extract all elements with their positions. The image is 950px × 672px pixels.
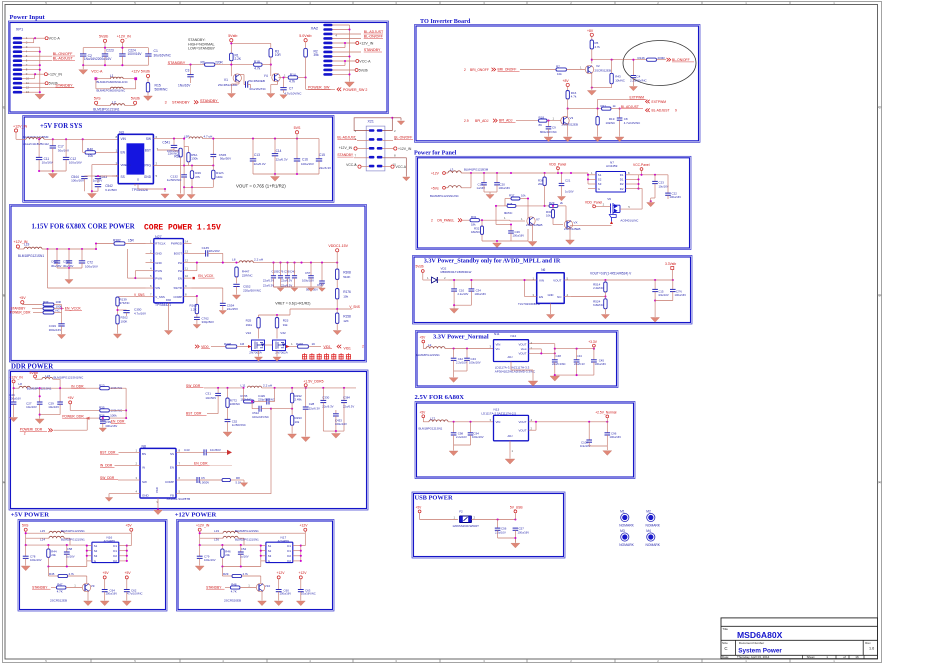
svg-text:1Nu/10V: 1Nu/10V xyxy=(658,293,669,297)
svg-text:BL-ADJUST: BL-ADJUST xyxy=(364,30,384,34)
svg-text:SW_DDR: SW_DDR xyxy=(186,384,201,388)
transistor V4 2SCR520EB xyxy=(248,73,288,93)
svg-text:10u/16V: 10u/16V xyxy=(659,184,669,188)
power pin 5VS xyxy=(22,524,29,546)
power pin 5Vstb R1 xyxy=(228,34,237,53)
ground C27 xyxy=(35,419,44,424)
inductor L2 BLM18PG121SN1 xyxy=(93,100,135,111)
ground C60 xyxy=(274,601,283,606)
svg-text:R23: R23 xyxy=(99,383,105,387)
svg-text:100u/16V: 100u/16V xyxy=(71,179,84,183)
svg-text:BLM18PG121SN1: BLM18PG121SN1 xyxy=(235,529,259,533)
svg-text:4.7u/10V/NC: 4.7u/10V/NC xyxy=(624,121,641,125)
svg-text:R33: R33 xyxy=(43,300,49,304)
net STANDBY drv xyxy=(32,585,56,589)
IC N3 TPS54528 xyxy=(116,131,159,192)
power pin +12V_IN ddr xyxy=(9,376,23,389)
svg-text:2N7002A: 2N7002A xyxy=(249,350,262,354)
svg-text:GND: GND xyxy=(548,293,554,297)
svg-text:100u/16V: 100u/16V xyxy=(610,435,622,439)
svg-text:5VS: 5VS xyxy=(94,96,101,100)
svg-text:C43: C43 xyxy=(184,448,190,452)
svg-text:22R/NC: 22R/NC xyxy=(242,274,254,278)
svg-text:C330: C330 xyxy=(322,396,329,400)
IC N27 TPS54421 xyxy=(146,235,192,307)
svg-text:2.2u/10V: 2.2u/10V xyxy=(456,435,467,439)
svg-text:NOMARK: NOMARK xyxy=(619,524,634,528)
svg-text:C223: C223 xyxy=(106,49,114,53)
resistor R40 10k xyxy=(83,139,119,158)
ground C554 xyxy=(219,311,226,315)
svg-text:10k/NC: 10k/NC xyxy=(615,78,625,82)
connector XA1 xyxy=(355,120,397,171)
resistor R160 1.2K comp xyxy=(190,295,199,317)
svg-text:L8: L8 xyxy=(18,382,22,386)
ground C52 xyxy=(223,432,232,437)
power pin VCC-A xa1 right xyxy=(382,165,406,169)
svg-text:SW_DDR: SW_DDR xyxy=(100,476,115,480)
svg-text:SS: SS xyxy=(121,175,125,179)
svg-text:18k/NC: 18k/NC xyxy=(471,230,480,234)
ground C28 xyxy=(301,437,310,442)
svg-text:2: 2 xyxy=(431,219,433,223)
svg-text:R308: R308 xyxy=(343,271,351,275)
svg-text:C22: C22 xyxy=(672,192,678,196)
svg-text:191k: 191k xyxy=(246,323,253,327)
capacitor C26 panel 100u/16V xyxy=(496,223,524,241)
svg-text:Title: Title xyxy=(722,627,728,631)
svg-text:14: 14 xyxy=(185,240,189,244)
svg-text:+1.5V_DDR5: +1.5V_DDR5 xyxy=(303,380,323,384)
svg-text:RT/CLK: RT/CLK xyxy=(155,242,165,246)
ground R15 xyxy=(144,96,153,101)
svg-text:100u/16V: 100u/16V xyxy=(475,292,487,296)
svg-text:C10: C10 xyxy=(459,288,465,292)
capacitor C48 22u/6.3V/NC xyxy=(552,349,566,375)
ground C38 xyxy=(99,428,106,432)
capacitor C111 100u/16V xyxy=(655,280,686,301)
svg-text:BLM41PG121SN1: BLM41PG121SN1 xyxy=(61,529,85,533)
fiducial M3 xyxy=(619,529,634,547)
inductor L19 xyxy=(199,529,306,534)
ground C64 xyxy=(100,601,109,606)
wire XA1 pin1 loop xyxy=(354,117,401,131)
ground C63 xyxy=(296,601,305,606)
capacitor C60 xyxy=(276,588,291,600)
svg-text:F2: F2 xyxy=(459,509,463,513)
svg-text:VIN: VIN xyxy=(539,278,544,282)
capacitor C567 560p/50V xyxy=(306,263,325,292)
ground C21 xyxy=(557,197,565,201)
block 3.3V Power_Standby xyxy=(413,256,693,325)
transistor V2 2SCR512EB xyxy=(585,64,611,74)
capacitor C10 2.2u/10V xyxy=(451,280,468,305)
svg-text:IN: IN xyxy=(142,465,145,469)
svg-text:VOUT: VOUT xyxy=(518,342,526,346)
svg-text:R47: R47 xyxy=(57,583,63,587)
net STANDBY drv xyxy=(206,585,230,589)
resistor R524 6.8k/NC xyxy=(593,299,607,314)
ground V9 xyxy=(84,601,93,606)
svg-text:30u/16V: 30u/16V xyxy=(58,149,69,153)
svg-text:5Vstb: 5Vstb xyxy=(416,265,424,269)
power pin VDD_Panel v6 xyxy=(585,200,611,207)
capacitor C3 xyxy=(178,65,194,88)
net BL_ADJUST inv xyxy=(621,105,677,113)
svg-text:PVIN: PVIN xyxy=(155,269,162,273)
power pin +5V core xyxy=(19,296,42,304)
svg-text:5Vstb: 5Vstb xyxy=(228,34,237,38)
svg-text:BL-ON/OFF: BL-ON/OFF xyxy=(672,58,690,62)
svg-text:D1: D1 xyxy=(113,549,117,553)
svg-text:22u/6.3/NC: 22u/6.3/NC xyxy=(552,362,566,366)
svg-text:Thursday, April 03, 2014: Thursday, April 03, 2014 xyxy=(737,655,770,659)
resistor R46 20k xyxy=(221,545,231,566)
svg-text:4.7k: 4.7k xyxy=(254,67,260,71)
net V_SNS right xyxy=(290,305,360,315)
power pin +12V_IN xa1 right xyxy=(382,147,411,151)
svg-text:R36: R36 xyxy=(99,413,105,417)
ground XP1 xyxy=(35,94,45,99)
svg-text:C34: C34 xyxy=(476,288,482,292)
net EXTPWM xyxy=(598,95,667,108)
resistor R49 27k xyxy=(190,166,201,188)
svg-text:100u/16V: 100u/16V xyxy=(595,362,607,366)
svg-text:A: A xyxy=(879,481,881,485)
svg-text:IN_DDR: IN_DDR xyxy=(71,384,84,388)
svg-text:22u/6.3V: 22u/6.3V xyxy=(263,284,274,288)
ground vreg loop xyxy=(87,191,96,198)
resistor R35d 100k/NC xyxy=(99,406,126,413)
svg-text:S3: S3 xyxy=(598,182,602,186)
resistor R492 1K xyxy=(286,342,322,348)
svg-text:3.3Vstb: 3.3Vstb xyxy=(665,262,676,266)
power pin +12V panel xyxy=(431,172,448,176)
svg-text:BLM18PG121SN1: BLM18PG121SN1 xyxy=(93,108,119,112)
resistor R29 4.7k xyxy=(222,567,260,584)
capacitor C5 100u/16V/NC xyxy=(244,81,267,91)
resistor R29 panel 2k xyxy=(545,201,566,211)
power pin +12V out xyxy=(300,524,309,534)
svg-text:ADJ: ADJ xyxy=(508,355,514,359)
wire PH bus xyxy=(192,262,240,271)
svg-text:3.3V Power_Normal: 3.3V Power_Normal xyxy=(433,334,489,341)
resistor R292 2.49k xyxy=(290,388,302,409)
capacitor C350 4.7u/16V xyxy=(116,308,146,317)
capacitor C22 100u/16V xyxy=(665,175,681,199)
svg-text:+12V: +12V xyxy=(131,70,140,74)
svg-text:+5V: +5V xyxy=(68,396,75,400)
svg-text:ON_PANEL: ON_PANEL xyxy=(437,219,455,223)
net POWER_SW xyxy=(306,78,368,92)
svg-text:+12V: +12V xyxy=(431,172,440,176)
svg-text:C54: C54 xyxy=(241,547,247,551)
capacitor C58 xyxy=(64,545,75,566)
svg-text:C79: C79 xyxy=(204,555,210,559)
block Power Input xyxy=(8,14,388,114)
svg-text:100u/16V: 100u/16V xyxy=(30,558,42,562)
inductor L15 xyxy=(25,529,132,534)
resistor R139 37K/NC xyxy=(116,297,130,315)
capacitor C13 22u/6.3V xyxy=(250,139,266,174)
svg-text:16: 16 xyxy=(855,655,859,659)
wire panel gnd rail xyxy=(482,229,533,243)
net EN_DDR ddr xyxy=(111,420,126,424)
power pin +12V c2 xyxy=(299,571,308,589)
svg-text:EXTPWM: EXTPWM xyxy=(652,100,667,104)
block 1.15V FOR 6X80X CORE POWER xyxy=(10,205,367,363)
wire fb tap xyxy=(270,408,293,410)
power pin 5Vstb 33stb xyxy=(416,265,447,280)
ground cap bank xyxy=(79,65,88,74)
svg-text:VIN: VIN xyxy=(121,137,127,141)
resistor R18 8K xyxy=(539,116,562,127)
svg-text:AX2062-SGP8TB: AX2062-SGP8TB xyxy=(167,497,191,501)
resistor R772 22R/NC xyxy=(226,388,240,419)
svg-text:91k: 91k xyxy=(283,323,288,327)
svg-text:PAD: PAD xyxy=(155,487,159,493)
svg-text:Power Input: Power Input xyxy=(10,14,46,21)
capacitor C45 100u/16V xyxy=(591,349,606,375)
IC N6 TLV70233DBVR xyxy=(518,268,571,306)
ground C23 xyxy=(647,194,655,207)
svg-text:STANDBY: STANDBY xyxy=(168,61,186,65)
svg-text:100u/16V: 100u/16V xyxy=(106,592,118,596)
wire core caps gnd rail xyxy=(57,267,82,279)
svg-text:1n/50V/NC: 1n/50V/NC xyxy=(232,423,246,427)
ground C78 xyxy=(21,566,30,571)
svg-text:NC: NC xyxy=(56,309,60,313)
IC N17 AO4459 xyxy=(261,535,301,563)
svg-text:S1: S1 xyxy=(598,173,602,177)
svg-text:+5V: +5V xyxy=(19,296,26,300)
IC N8 AX3062 xyxy=(131,444,190,504)
svg-text:D2: D2 xyxy=(287,559,291,563)
svg-text:BPI_ADJ: BPI_ADJ xyxy=(475,119,489,123)
svg-text:+5Vs: +5Vs xyxy=(431,186,439,190)
svg-text:PH: PH xyxy=(178,269,182,273)
inductor L6 panel xyxy=(430,173,471,198)
resistor R155 snubber 180k/NC xyxy=(241,388,263,403)
capacitor C62 xyxy=(124,588,143,600)
svg-text:510K: 510K xyxy=(343,275,351,279)
svg-text:V22: V22 xyxy=(246,331,252,335)
wire pin9 pin10 xyxy=(22,73,44,79)
svg-text:VID1: VID1 xyxy=(344,346,351,350)
wire ddr out gnd rail xyxy=(323,430,344,433)
svg-text:V9: V9 xyxy=(91,584,95,588)
svg-text:22u/25V: 22u/25V xyxy=(227,307,238,311)
ground C19 C20 xyxy=(484,192,497,199)
resistor R308 510K xyxy=(336,263,352,289)
svg-text:2SCR512EBM: 2SCR512EBM xyxy=(218,83,238,87)
capacitor C1 xyxy=(145,48,171,65)
svg-text:13: 13 xyxy=(185,249,189,253)
svg-text:AO4459: AO4459 xyxy=(606,164,618,168)
svg-text:2.5V FOR 6A80X: 2.5V FOR 6A80X xyxy=(415,394,465,401)
svg-text:100u/16V: 100u/16V xyxy=(472,435,484,439)
capacitor C543 1u/25V xyxy=(93,175,119,183)
power pin +5Vs panel xyxy=(431,186,448,190)
ground C552 xyxy=(232,295,240,299)
svg-text:M4: M4 xyxy=(646,529,651,533)
svg-text:30u/16V: 30u/16V xyxy=(63,264,74,268)
ground 33stb input xyxy=(450,305,459,313)
svg-text:Date:: Date: xyxy=(722,655,729,659)
svg-text:+3.3V: +3.3V xyxy=(588,340,598,344)
svg-text:S2: S2 xyxy=(598,178,602,182)
svg-text:BL-ON/OFF: BL-ON/OFF xyxy=(394,135,412,139)
svg-text:V32: V32 xyxy=(280,331,286,335)
resistor R43 10k/NC xyxy=(592,60,625,88)
wire XA2 bus xyxy=(333,25,351,82)
ground 33norm caps xyxy=(550,376,560,381)
resistor R21 1k xyxy=(601,104,621,110)
net IN_DDR pin2 xyxy=(100,463,131,467)
net BL-ON/OFF xa1 right xyxy=(382,135,413,140)
resistor R446 1M xyxy=(224,342,252,348)
inductor L8 ddr xyxy=(13,386,100,390)
svg-text:4.7k: 4.7k xyxy=(289,80,295,84)
resistor R146 200R xyxy=(592,56,666,62)
inductor L1 BLM41PG600SN1 xyxy=(96,74,136,84)
svg-text:100u/16V: 100u/16V xyxy=(85,265,98,269)
svg-text:EN_VCCK: EN_VCCK xyxy=(65,307,82,311)
svg-text:2SCR125EB: 2SCR125EB xyxy=(526,223,542,227)
svg-text:VX: VX xyxy=(574,221,578,225)
svg-text:COMP: COMP xyxy=(173,295,182,299)
svg-text:Sheet: Sheet xyxy=(807,655,815,659)
svg-text:S1: S1 xyxy=(94,544,98,548)
svg-text:C105C76 C36/C40: C105C76 C36/C40 xyxy=(272,270,296,274)
title block xyxy=(721,618,878,659)
wire pin11 5vstb xyxy=(22,82,45,84)
inductor L1b row2 xyxy=(96,79,136,93)
capacitor C9 800u/16V/NC xyxy=(540,121,557,137)
svg-text:2: 2 xyxy=(464,68,466,72)
resistor R36 20k panel xyxy=(538,173,546,206)
svg-text:5Vstb: 5Vstb xyxy=(141,70,150,74)
ground sys caps xyxy=(48,174,57,179)
svg-text:VCC-A: VCC-A xyxy=(346,163,357,167)
svg-text:GND: GND xyxy=(155,261,161,265)
svg-text:5Vstb: 5Vstb xyxy=(359,68,368,72)
svg-text:2.9: 2.9 xyxy=(464,119,469,123)
resistor R32 18k/NC xyxy=(471,220,484,241)
svg-text:+12V: +12V xyxy=(277,571,286,575)
svg-text:L19: L19 xyxy=(214,529,219,533)
svg-text:100V/16V: 100V/16V xyxy=(128,52,143,56)
capacitor C433 100u/16V xyxy=(333,410,347,431)
svg-text:EXTPWM: EXTPWM xyxy=(630,95,645,99)
capacitor C319 300u/16V xyxy=(49,313,65,335)
svg-text:100u/16V: 100u/16V xyxy=(9,396,21,400)
resistor R31 18k xyxy=(470,215,510,226)
svg-text:VOUT = 0.765 (1+R1/R2): VOUT = 0.765 (1+R1/R2) xyxy=(236,184,286,189)
svg-text:NOMARK: NOMARK xyxy=(646,543,661,547)
inductor L5 4.7uH xyxy=(184,135,212,139)
svg-text:V_SNS: V_SNS xyxy=(134,293,144,297)
svg-text:TPS54528: TPS54528 xyxy=(132,188,148,192)
svg-text:BS: BS xyxy=(142,452,146,456)
svg-text:00u/16V/NC: 00u/16V/NC xyxy=(250,87,267,91)
svg-text:C78: C78 xyxy=(30,555,36,559)
svg-text:100u/16V: 100u/16V xyxy=(204,558,216,562)
ground V1 xyxy=(227,94,235,98)
svg-text:R158: R158 xyxy=(343,315,351,319)
resistor R30 10k vert xyxy=(546,205,555,225)
svg-text:BLM18PG121SN1: BLM18PG121SN1 xyxy=(419,427,443,431)
svg-text:10k: 10k xyxy=(546,214,551,218)
svg-text:of: of xyxy=(843,655,846,659)
net BL-ADJUST xa2 xyxy=(333,30,385,34)
svg-text:2200u/16V: 2200u/16V xyxy=(96,57,112,61)
svg-text:V10: V10 xyxy=(265,584,271,588)
svg-text:1Nu/16V: 1Nu/16V xyxy=(178,84,191,88)
svg-text:C98: C98 xyxy=(458,432,464,436)
svg-text:C48: C48 xyxy=(556,354,562,358)
svg-text:BL-ON/OFF: BL-ON/OFF xyxy=(364,35,384,39)
net STANDBY xa1 xyxy=(337,153,368,158)
capacitor C52 1n/50V/NC xyxy=(225,419,246,431)
wire S pin bus xyxy=(25,544,88,561)
svg-text:PH: PH xyxy=(178,261,182,265)
wire lower bus xyxy=(221,561,260,568)
inductor L27 xyxy=(419,417,494,431)
capacitor C11 10u/16V xyxy=(36,139,53,171)
power pin VCC-A xa2 xyxy=(333,59,372,65)
inductor L19 BLM18PG121SN1 xyxy=(18,247,96,258)
svg-text:SS: SS xyxy=(170,452,174,456)
IC N7 AO4459 panel xyxy=(588,160,634,192)
wire SS pin xyxy=(112,175,118,177)
power pin +5V ddr xyxy=(68,396,100,411)
svg-text:PWRGD: PWRGD xyxy=(171,242,182,246)
svg-text:1.15V FOR 6X80X CORE POWER: 1.15V FOR 6X80X CORE POWER xyxy=(32,224,135,231)
IC N16 AO4489 xyxy=(87,535,127,563)
svg-text:+12V_IN: +12V_IN xyxy=(48,73,62,77)
svg-text:4.7K: 4.7K xyxy=(57,590,63,594)
power pin +12V c1 xyxy=(277,571,286,589)
ground V2 emitter xyxy=(587,73,596,95)
svg-text:S2: S2 xyxy=(94,549,98,553)
svg-text:NOMARK: NOMARK xyxy=(646,524,661,528)
capacitor C4 2.2u/16V/NC xyxy=(630,59,647,86)
capacitor C96 100u/16V xyxy=(605,422,622,450)
svg-text:56p/50V: 56p/50V xyxy=(220,157,231,161)
svg-text:20k: 20k xyxy=(225,553,230,557)
svg-text:R45: R45 xyxy=(49,572,55,576)
svg-text:TLV70233DBVR: TLV70233DBVR xyxy=(518,302,541,306)
ground V7 xyxy=(528,242,537,247)
svg-text:VCC-A: VCC-A xyxy=(49,37,61,41)
svg-text:R7: R7 xyxy=(556,65,560,69)
text vout formula 33stb xyxy=(590,271,632,275)
svg-text:ADJ: ADJ xyxy=(508,434,514,438)
ground C4 xyxy=(629,87,637,91)
capacitor C56 2.2u/10V usb xyxy=(495,520,507,539)
svg-text:1u/16V: 1u/16V xyxy=(477,186,486,190)
ground V10 xyxy=(258,601,267,606)
svg-text:560R/NC: 560R/NC xyxy=(155,88,169,92)
wire panel drive mid xyxy=(495,205,497,225)
svg-text:3: 3 xyxy=(165,100,167,104)
svg-text:10k: 10k xyxy=(295,420,300,424)
block 2.5V FOR 6A80X xyxy=(415,394,636,479)
power pin +3.3V out xyxy=(588,340,598,349)
svg-text:Vout: Vout xyxy=(521,347,527,351)
block +12V POWER xyxy=(175,512,334,612)
